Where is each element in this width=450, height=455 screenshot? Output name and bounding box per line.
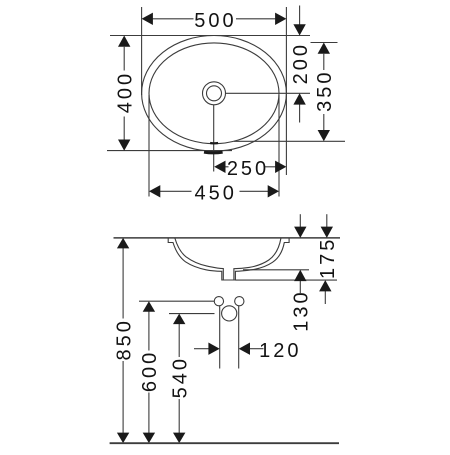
outer basin ellipse (top view) [142,36,287,152]
dimension 600 (floor to faucet line, rotated) [139,301,161,443]
big drain hole circle [222,306,237,321]
top tangent extension line [110,35,310,37]
dimension 500 (top) [142,10,287,32]
small faucet hole left [214,297,223,306]
small faucet hole right [235,297,244,306]
dimension 850 (floor to counter, rotated) [113,238,135,443]
basin cross-section inner surface [175,238,281,280]
bottom reference line for 350 [234,140,345,142]
svg-text:450: 450 [195,183,237,205]
faucet reference line (600) [139,300,214,302]
dimension 400 (left, rotated) [115,36,137,151]
svg-text:130: 130 [291,289,313,331]
inner basin rim ellipse (top view) [149,43,279,144]
svg-text:175: 175 [317,237,339,279]
svg-text:250: 250 [227,158,269,180]
reference line A (bowl bottom) [243,269,309,271]
reference line B (drain nub bottom) [235,279,337,281]
top reference line for 350 [311,42,338,44]
right extension line for 450 [278,95,280,197]
basin cross-section outer contour [168,238,289,280]
floor line [110,442,339,444]
svg-text:850: 850 [113,318,135,360]
svg-text:500: 500 [194,10,236,32]
svg-text:540: 540 [170,356,192,398]
svg-text:600: 600 [139,350,161,392]
svg-text:200: 200 [290,42,312,84]
right extension line for 500/250 [285,7,287,175]
dimension 130 (counter to bowl bottom, rotated text below) [291,214,313,331]
dimension 250 (inside bottom of top view) [214,158,286,180]
dimension 540 (floor to big hole line, rotated) [170,314,192,444]
drain centerline vertical [213,105,215,172]
big hole reference line (540) [169,313,215,315]
dimension 450 (bottom of top view) [149,183,279,205]
right drop line from faucet hole [238,306,240,369]
counter line (front view) [114,237,341,239]
svg-text:120: 120 [259,340,301,362]
drain inner circle [207,86,222,101]
dimension 175 (counter to drain bottom, rotated) [317,214,339,304]
left extension line for 450 [148,95,150,197]
overflow mark on inner ellipse bottom [210,142,218,145]
drain centerline horizontal [226,92,311,94]
svg-text:400: 400 [115,71,137,113]
svg-text:350: 350 [314,70,336,112]
drain outer circle [203,82,226,105]
dimension 200 (right of top view, rotated) [290,6,312,123]
dimension 120 (between faucet holes) [194,340,301,362]
overflow mark on outer ellipse bottom [204,151,223,155]
bottom extension line for 400 [107,150,232,152]
dimension 350 (far right of top view, rotated) [314,43,336,142]
left drop line from faucet hole [219,306,221,369]
left extension line for 500 [141,7,143,95]
